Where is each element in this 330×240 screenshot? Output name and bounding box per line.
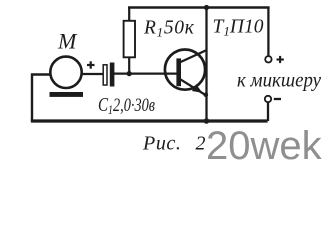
junction node: emitter / bottom rail [204, 118, 210, 124]
wire: output negative drop to bottom rail [267, 102, 269, 121]
svg-text:Т1П10: Т1П10 [213, 16, 264, 38]
polarity + sign [87, 61, 95, 68]
svg-text:С12,0·30в: С12,0·30в [98, 94, 155, 117]
transistor T1 emitter arrow [192, 84, 203, 93]
wire: output positive drop [267, 8, 269, 56]
svg-text:2: 2 [196, 132, 206, 154]
svg-text:20wek: 20wek [206, 124, 323, 167]
wire: bottom rail [31, 119, 268, 122]
wire: mic left lead down to bottom rail [32, 75, 51, 122]
junction node: base / R1 [127, 71, 132, 76]
resistor R1 body [124, 21, 135, 58]
junction node: emitter meets branch [204, 93, 209, 98]
svg-text:М: М [57, 29, 78, 54]
capacitor C1 positive plate [103, 65, 107, 85]
capacitor C1 negative plate [110, 63, 115, 87]
wire: top rail [128, 6, 270, 9]
junction node: top rail / collector branch [204, 5, 209, 10]
resistor R1 lead bottom [128, 57, 130, 74]
plus sign [277, 56, 284, 63]
wire: collector-emitter vertical branch [205, 8, 207, 122]
svg-text:R150к: R150к [143, 18, 195, 40]
wire: mic to capacitor [81, 73, 104, 75]
wire: capacitor to base [114, 72, 178, 74]
transistor T1 collector lead [180, 50, 207, 63]
resistor R1 lead top [128, 7, 130, 21]
transistor T1 emitter lead [180, 79, 207, 96]
minus sign [274, 98, 281, 100]
terminal - [265, 96, 271, 102]
svg-text:Рис.: Рис. [142, 132, 182, 154]
microphone M base bar [50, 92, 84, 97]
terminal + [265, 56, 271, 62]
microphone M body [50, 57, 81, 88]
svg-text:к микшеру: к микшеру [237, 68, 322, 92]
transistor T1 base bar [176, 58, 181, 86]
transistor T1 body [165, 50, 205, 90]
